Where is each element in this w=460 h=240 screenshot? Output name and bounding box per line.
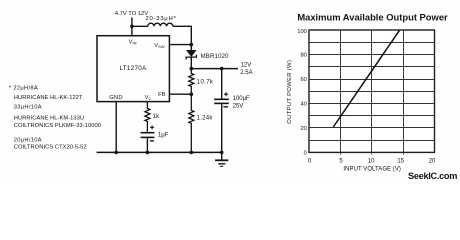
wire: C2 to ground bus [146, 138, 148, 152]
node: output junction [190, 67, 194, 71]
resistor R1 10.7k [189, 69, 194, 95]
chart x-axis ticks [341, 152, 404, 154]
wire: ground stub [221, 152, 223, 159]
capacitor C1 100uF polarized [214, 98, 229, 100]
wire: input vertical drop to VIN [131, 18, 133, 36]
node: C1 ground junction [220, 151, 224, 155]
wire: VSW pin to diode node [169, 44, 191, 46]
svg-text:2.5A: 2.5A [240, 70, 252, 76]
svg-text:GND: GND [109, 95, 122, 101]
label: C1 minus sign [223, 106, 228, 108]
label: C2 minus sign [150, 140, 154, 142]
svg-text:5: 5 [339, 159, 343, 165]
wire: FB pin to feedback junction [169, 93, 191, 95]
svg-text:COILTRONICS CTX20-5-52: COILTRONICS CTX20-5-52 [14, 145, 87, 151]
wire: output junction down to C1 [221, 69, 223, 99]
resistor R3 1k on VC pin [145, 102, 150, 132]
svg-text:40: 40 [300, 101, 306, 107]
chart plot border [309, 30, 435, 152]
svg-text:25V: 25V [233, 104, 244, 110]
svg-text:LT1270A: LT1270A [119, 65, 147, 72]
wire: C1 to ground bus [221, 104, 223, 152]
svg-text:SeekIC.com: SeekIC.com [408, 171, 457, 181]
node: GND pin junction [114, 151, 118, 155]
chart horizontal gridlines [309, 43, 435, 141]
label: C2 plus sign [150, 126, 154, 128]
chart x-axis tick labels [308, 159, 436, 165]
svg-text:HURRICANE HL-KK-122T: HURRICANE HL-KK-122T [14, 95, 83, 101]
svg-text:* 22μH/8A: * 22μH/8A [9, 85, 38, 91]
svg-text:20-33μH*: 20-33μH* [145, 16, 176, 22]
node: output cap junction [220, 67, 224, 71]
chart vertical gridlines [341, 30, 404, 152]
svg-text:80: 80 [300, 53, 306, 59]
svg-text:20: 20 [429, 159, 436, 165]
ground symbol [215, 159, 228, 161]
node: C2 ground junction [146, 151, 150, 155]
svg-text:1.24k: 1.24k [197, 116, 214, 122]
note: inductor options list [9, 85, 101, 150]
svg-text:33μH/10A: 33μH/10A [14, 104, 42, 110]
chart y-axis tick labels [297, 29, 307, 156]
svg-text:60: 60 [300, 77, 306, 83]
svg-text:VC: VC [145, 95, 152, 101]
svg-text:COILTRONICS PLKMF-33-10000: COILTRONICS PLKMF-33-10000 [14, 123, 101, 129]
svg-text:0: 0 [308, 159, 312, 165]
svg-text:OUTPUT POWER (W): OUTPUT POWER (W) [287, 60, 293, 124]
svg-text:1k: 1k [153, 114, 160, 120]
wire: GND pin to ground bus [115, 102, 117, 153]
svg-text:VSW: VSW [154, 43, 165, 49]
svg-text:12V: 12V [241, 62, 252, 68]
wire: switch node into diode anode [190, 45, 192, 51]
chart data line: max output power vs input voltage [333, 30, 399, 127]
node: switch node junction [190, 43, 194, 47]
wire: junction to inductor [132, 25, 148, 27]
svg-text:4.7V TO 12V: 4.7V TO 12V [115, 11, 148, 17]
diode D1 MBR1020 (schottky, pointing down) [187, 50, 196, 56]
wire: inductor to switch node (corner) [173, 26, 191, 44]
svg-text:FB: FB [158, 92, 166, 98]
wire: ground bus [97, 151, 222, 153]
wire: output rail [191, 68, 238, 70]
svg-text:100: 100 [297, 29, 307, 35]
IC U1 LT1270A box [97, 36, 169, 102]
node: input junction [130, 25, 134, 29]
label: C1 plus sign [224, 93, 228, 95]
svg-text:VIN: VIN [129, 40, 137, 46]
node: feedback junction [190, 92, 194, 96]
svg-text:20: 20 [300, 126, 306, 132]
svg-text:INPUT VOLTAGE (V): INPUT VOLTAGE (V) [343, 166, 401, 172]
inductor L1 20-33uH [148, 23, 173, 26]
wire: diode cathode to output node [190, 57, 192, 69]
svg-text:Maximum Available Output Power: Maximum Available Output Power [297, 11, 448, 22]
svg-text:HURRICANE HL-KM-133U: HURRICANE HL-KM-133U [14, 115, 84, 121]
svg-text:0: 0 [304, 150, 307, 156]
svg-text:1μF: 1μF [158, 132, 169, 138]
svg-text:100μF: 100μF [233, 96, 250, 102]
capacitor C2 1uF polarized [141, 132, 155, 134]
svg-text:20μH/10A: 20μH/10A [14, 137, 42, 143]
resistor R2 1.24k [189, 94, 194, 152]
svg-text:MBR1020: MBR1020 [201, 54, 230, 60]
svg-text:10.7k: 10.7k [197, 80, 214, 86]
svg-text:15: 15 [397, 159, 404, 165]
svg-text:10: 10 [368, 159, 375, 165]
node: R2 ground junction [190, 151, 194, 155]
